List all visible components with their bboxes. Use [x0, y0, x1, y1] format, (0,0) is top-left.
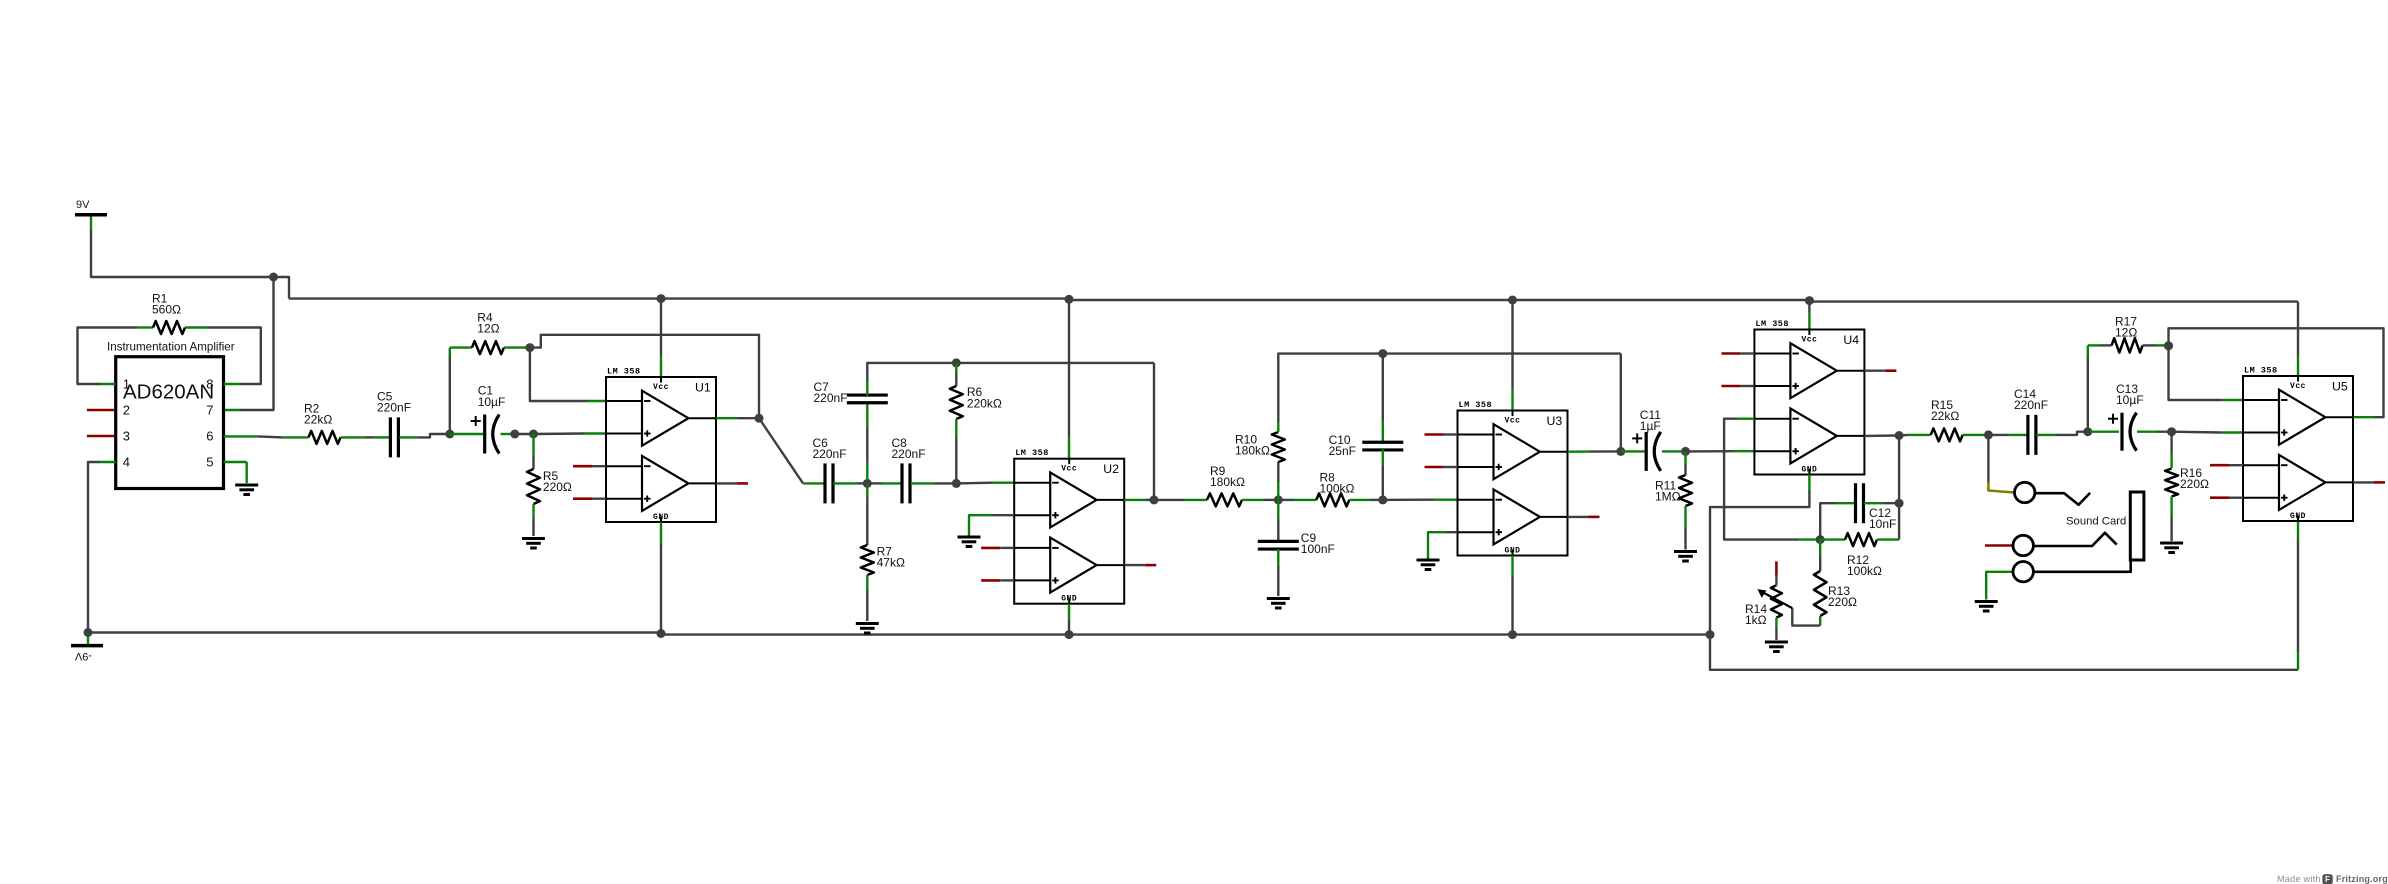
label R12	[1847, 553, 1882, 578]
wire R7 to ground	[866, 590, 868, 621]
svg-text:12Ω: 12Ω	[477, 322, 499, 336]
svg-text:U2: U2	[1103, 462, 1119, 476]
wire R16 bottom green lead	[2170, 497, 2172, 517]
wire R4 left green lead v	[449, 348, 451, 356]
wire U3 out to node G	[1590, 450, 1621, 453]
node C1 right b (R5 tap)	[529, 430, 538, 439]
svg-text:8: 8	[206, 376, 213, 391]
wire R2 right green lead	[341, 436, 366, 438]
svg-text:180kΩ: 180kΩ	[1235, 444, 1270, 458]
ground (R11)	[1674, 552, 1697, 562]
wire R16 top green lead	[2170, 452, 2172, 468]
stub U1 in2+ (unconnected)	[573, 497, 606, 500]
jack ring terminal circle	[2013, 535, 2033, 555]
svg-text:Vcc: Vcc	[1061, 465, 1077, 474]
wire rail to U2 Vcc	[1068, 299, 1070, 437]
wire U1 GND green lead	[660, 522, 662, 545]
op-amp U2 (LM358)	[1014, 448, 1124, 604]
resistor R16	[2165, 469, 2178, 497]
svg-text:LM 358: LM 358	[2244, 366, 2278, 376]
stub U2 in2+ (unconnected)	[981, 579, 1014, 582]
svg-text:1: 1	[123, 376, 130, 391]
wire R6 bottom green lead	[955, 419, 957, 437]
label R11	[1655, 479, 1681, 504]
wire U3 out1 green lead	[1568, 450, 1590, 453]
wire R17 right green lead	[2156, 344, 2169, 346]
wire U5 out1 feedback	[2169, 328, 2384, 417]
wire node I green lead	[1798, 538, 1820, 540]
wire R10 bottom green lead	[1277, 482, 1279, 500]
label R14	[1745, 602, 1767, 627]
wire node M to C13 green lead	[2090, 431, 2119, 433]
svg-text:Instrumentation Amplifier: Instrumentation Amplifier	[107, 341, 235, 354]
wire R14 bottom green lead	[1775, 618, 1777, 628]
IC U6 AD620AN instrumentation amplifier	[107, 341, 235, 489]
wire node M up to R17	[2087, 358, 2089, 432]
svg-text:100kΩ: 100kΩ	[1320, 482, 1355, 496]
stub U5 out2 (unconnected)	[2353, 481, 2385, 483]
wire R6 bottom lead2	[955, 437, 957, 483]
node R6 top	[952, 358, 961, 367]
label C12	[1869, 506, 1896, 531]
wire node O to U5 in1+	[2172, 431, 2221, 434]
stub U3 in1+ (unconnected)	[1425, 466, 1458, 469]
wire node C to C8	[867, 482, 882, 484]
wire node L down to jack	[1987, 435, 1989, 483]
wire node N to U5 in1-	[2169, 345, 2222, 400]
stub U5 in2+ (unconnected)	[2210, 496, 2243, 499]
wire U5 GND green lead	[2297, 521, 2299, 540]
wire R13 top green lead	[1819, 540, 1821, 556]
wire junction to top +9V rail	[274, 277, 290, 299]
wire R7 top lead	[866, 483, 868, 497]
svg-text:560Ω: 560Ω	[152, 303, 181, 317]
wire fb down to U3 out	[1620, 354, 1622, 452]
wire C13 right green lead	[2137, 431, 2158, 433]
label C5	[377, 390, 411, 415]
wire pin5 down	[245, 462, 247, 483]
wire R9 right green lead	[1242, 499, 1264, 501]
svg-text:180kΩ: 180kΩ	[1210, 475, 1245, 489]
label R15	[1931, 398, 1959, 423]
resistor R10	[1272, 432, 1285, 462]
resistor R13	[1814, 571, 1827, 616]
wire fb down to U2 out	[1153, 363, 1155, 500]
resistor R15	[1931, 428, 1963, 441]
wire R2 left green lead	[283, 436, 308, 438]
wire C7 bottom green lead2	[866, 462, 868, 481]
wire U4 in2- green lead	[1736, 418, 1754, 420]
wire R8 left green lead	[1293, 499, 1316, 501]
wire node J up to out2 row	[1898, 436, 1900, 504]
capacitor C13 (polarized)	[2108, 413, 2137, 451]
wire R10 bottom lead2	[1277, 462, 1279, 482]
svg-text:25nF: 25nF	[1329, 444, 1356, 458]
wire node H to U4	[1686, 450, 1733, 453]
ground (R16)	[2160, 543, 2183, 553]
label C13	[2116, 382, 2144, 407]
label R7	[877, 545, 905, 570]
svg-text:7: 7	[206, 402, 213, 417]
wire pin4 green lead	[98, 461, 116, 463]
node F (R8/C10/U3)	[1378, 495, 1387, 504]
svg-text:Fritzing.org: Fritzing.org	[2336, 874, 2388, 884]
svg-text:Vcc: Vcc	[2290, 382, 2306, 391]
node B (R4 right)	[525, 343, 534, 352]
node L (R15/C14/jack)	[1984, 430, 1993, 439]
wire U2 in1+ lead	[991, 514, 1014, 516]
wire rail to U3 Vcc	[1511, 300, 1513, 389]
wire C13 to node O	[2158, 431, 2172, 433]
capacitor C12	[1856, 483, 1864, 523]
svg-text:Vcc: Vcc	[653, 383, 669, 392]
node U2 GND rail	[1065, 630, 1074, 639]
wire R12 left green lead	[1820, 538, 1845, 540]
node C (C6/C7/R7/C8)	[863, 479, 872, 488]
svg-text:10µF: 10µF	[2116, 393, 2144, 407]
wire R1 left green lead	[137, 326, 153, 328]
node -9V rail start	[84, 628, 93, 637]
svg-text:220nF: 220nF	[814, 391, 848, 405]
capacitor C9	[1258, 541, 1299, 549]
wire rail corner down to bottom loop	[1710, 635, 2298, 670]
wire C14 to node M	[2056, 432, 2088, 435]
wire C10 top lead	[1382, 354, 1384, 420]
wire U2 out1 to junction	[1146, 499, 1154, 501]
wire pin1 to R1	[78, 328, 138, 385]
battery +9V terminal	[75, 199, 107, 231]
wire U2 in1+ to ground (green)	[969, 515, 992, 535]
wire R6 top lead	[955, 363, 957, 372]
wire R12 right green lead	[1877, 538, 1899, 540]
svg-text:2: 2	[123, 402, 130, 417]
label Sound Card	[2066, 516, 2126, 528]
svg-text:1kΩ: 1kΩ	[1745, 613, 1767, 627]
wire R16 to ground	[2170, 516, 2172, 541]
wire U3 in2+ to ground (green)	[1428, 532, 1447, 558]
wire R11 top lead2	[1684, 464, 1686, 475]
wire C7 bottom lead3	[866, 480, 868, 483]
label R4	[477, 311, 499, 336]
svg-text:6: 6	[206, 428, 213, 443]
wire pin1 green lead	[99, 383, 116, 385]
wire node L to C14	[1988, 434, 2008, 436]
capacitor C6	[825, 463, 833, 503]
svg-text:47kΩ: 47kΩ	[877, 556, 905, 570]
wire pin8 green lead	[224, 383, 241, 385]
wire 9V to junction	[91, 230, 274, 277]
wire pin6 green lead	[224, 435, 259, 437]
wire R8 to node F	[1371, 499, 1383, 501]
ground (R14)	[1765, 642, 1788, 652]
resistor R11	[1679, 475, 1692, 506]
wire node K to R15	[1899, 434, 1908, 437]
svg-text:220Ω: 220Ω	[2180, 477, 2209, 491]
wire R11 to ground	[1684, 527, 1686, 550]
svg-text:LM 358: LM 358	[607, 367, 641, 377]
svg-text:10nF: 10nF	[1869, 517, 1896, 531]
wire pin6 to R2	[258, 436, 283, 437]
wire R17 right lead dark	[2143, 344, 2156, 346]
wire C7 top to fb line	[867, 363, 956, 381]
wire R10 top to fb line 3	[1278, 354, 1383, 421]
footer Made with Fritzing.org	[2277, 874, 2388, 884]
wire C8 to node D	[933, 482, 956, 484]
ground (C9)	[1267, 599, 1290, 609]
capacitor C10	[1362, 442, 1403, 450]
wire C6 to node C	[857, 482, 867, 484]
wire R5 top lead2	[532, 455, 534, 469]
label R17	[2115, 315, 2137, 340]
battery -9V terminal	[71, 633, 103, 662]
wire U4 GND to left/down	[1710, 491, 1809, 635]
op-amp U1 (LM358)	[606, 367, 716, 523]
wire node B to U1 out (feedback)	[530, 335, 759, 418]
ground (R5)	[522, 539, 545, 549]
wire R5 to ground	[532, 517, 534, 536]
wire C8 right green lead	[910, 482, 933, 484]
wire bottom -9V rail	[88, 633, 1710, 635]
wire R15 right green lead	[1963, 434, 1985, 436]
stub U4 in1- (unconnected)	[1721, 352, 1754, 355]
wire C10 bottom lead2	[1382, 466, 1384, 500]
stub R14 top (unconnected)	[1775, 561, 1778, 585]
wire R9 left green lead	[1184, 499, 1207, 501]
wire U3 in2- green lead	[1435, 499, 1458, 501]
wire C12 right green lead	[1864, 502, 1883, 504]
op-amp U3 (LM358)	[1458, 400, 1568, 556]
resistor R4	[472, 341, 504, 354]
svg-text:1MΩ: 1MΩ	[1655, 490, 1681, 504]
node rail-U2Vcc	[1065, 295, 1074, 304]
capacitor C1 (polarized)	[471, 415, 500, 454]
svg-text:U1: U1	[695, 381, 711, 395]
wire jack tip lead (olive)	[1988, 482, 2014, 493]
ground (jack sleeve)	[1975, 602, 1998, 612]
svg-text:22kΩ: 22kΩ	[1931, 409, 1959, 423]
svg-text:220nF: 220nF	[813, 447, 847, 461]
stub U3 in1- (unconnected)	[1425, 433, 1458, 436]
label C1	[478, 384, 506, 409]
capacitor C11 (polarized)	[1632, 432, 1661, 471]
wire R17 left green lead v	[2087, 345, 2089, 358]
wire rail to U1 Vcc	[660, 299, 662, 355]
svg-text:220kΩ: 220kΩ	[967, 396, 1002, 410]
pin 2 stub (unconnected)	[87, 409, 114, 412]
wire U2 out to R9	[1154, 499, 1184, 501]
stub U4 out1 (unconnected)	[1864, 370, 1896, 372]
node rail-U3Vcc	[1508, 296, 1517, 305]
node C1 right a	[510, 430, 519, 439]
label C14	[2014, 387, 2048, 412]
wire C7 bottom lead2	[866, 428, 868, 463]
node H (C11/R11/U4)	[1681, 447, 1690, 456]
wire R14 to ground	[1775, 628, 1777, 640]
pin 3 stub (unconnected)	[87, 435, 114, 438]
wire U1 out1 to junction	[738, 417, 759, 419]
wire C6 left green lead	[803, 482, 825, 484]
wire U5 in1- green lead	[2221, 399, 2243, 401]
wire U1 in1- green lead	[588, 400, 606, 402]
wire pin4 down to -9V rail	[88, 462, 99, 633]
wire C10 bottom green lead	[1382, 449, 1384, 466]
resistor R17	[2112, 338, 2143, 352]
wire R12 right up to node J	[1898, 503, 1900, 539]
label C8	[892, 436, 926, 461]
label R6	[967, 385, 1002, 410]
wire R4 left green lead	[450, 346, 472, 348]
label C9	[1301, 531, 1335, 556]
label R5	[543, 469, 572, 494]
node D (C8/R6/U2)	[952, 479, 961, 488]
resistor R8	[1316, 493, 1349, 506]
wire U4 Vcc green lead	[1808, 312, 1810, 330]
jack tip terminal circle	[2015, 482, 2035, 502]
wire U3 in2+ lead	[1446, 531, 1458, 533]
stub U3 out2 (unconnected)	[1568, 516, 1600, 518]
wire U2 Vcc green lead	[1068, 437, 1070, 459]
op-amp U4 (LM358)	[1754, 319, 1864, 475]
svg-text:100kΩ: 100kΩ	[1847, 564, 1882, 578]
wire R9 to node E	[1264, 499, 1278, 501]
svg-text:220nF: 220nF	[377, 401, 411, 415]
wire fb line U3	[1383, 352, 1621, 354]
wire U2 GND to rail	[1068, 621, 1070, 635]
wire C9 to ground	[1277, 566, 1279, 596]
node U1 output	[755, 414, 764, 423]
node E (R9/R10/R8/C9)	[1274, 495, 1283, 504]
jack sleeve terminal circle	[2013, 562, 2033, 582]
wire U1 Vcc green lead	[660, 355, 662, 377]
stub U2 in2- (unconnected)	[981, 547, 1014, 550]
svg-text:U5: U5	[2332, 380, 2348, 394]
resistor R9	[1207, 493, 1242, 506]
node U3 GND rail	[1508, 630, 1517, 639]
wire to U1 non-inverting input	[534, 432, 585, 435]
node O (C13/R16/U5 in1+)	[2167, 427, 2176, 436]
wire R5 top lead	[532, 434, 534, 455]
wire U3 GND to rail	[1511, 577, 1513, 635]
ground (U3 in2+)	[1417, 560, 1440, 570]
wire U3 Vcc green lead	[1511, 389, 1513, 411]
wire junction to pin7 of U6	[240, 277, 274, 410]
jack ring stub (unconnected)	[1985, 544, 2013, 547]
node N (R17/fb/U5 in1-)	[2164, 341, 2173, 350]
label R2	[304, 402, 332, 427]
wire U4 in2- to node I	[1724, 419, 1798, 540]
svg-text:LM 358: LM 358	[1755, 319, 1789, 329]
wire C12 left green lead	[1836, 502, 1855, 504]
resistor R6	[950, 386, 963, 419]
svg-text:U3: U3	[1547, 414, 1563, 428]
node J (C12 right)	[1895, 499, 1904, 508]
svg-text:1µF: 1µF	[1640, 419, 1661, 433]
svg-text:220nF: 220nF	[892, 447, 926, 461]
wire U2 out1 green lead	[1124, 499, 1146, 501]
wire R7 top lead2	[866, 497, 868, 545]
stub U1 in2- (unconnected)	[573, 465, 606, 468]
label R16	[2180, 466, 2209, 491]
wire C11 left green lead	[1621, 450, 1645, 452]
wire C5 right green lead	[399, 436, 418, 438]
svg-text:LM 358: LM 358	[1015, 448, 1049, 458]
wire C7 bottom green lead	[866, 404, 868, 429]
stub U1 out2 (unconnected)	[716, 482, 748, 484]
wire U1 in1+ green lead	[584, 432, 606, 434]
ground (R7)	[856, 624, 879, 634]
label C10	[1329, 433, 1356, 458]
wire U5 out1 green lead	[2353, 416, 2375, 418]
op-amp U5 (LM358)	[2243, 366, 2353, 522]
wire C12 to node J	[1883, 502, 1899, 504]
wire U3 GND green lead	[1511, 556, 1513, 579]
wire U4 GND green lead	[1808, 475, 1810, 493]
wire R13 to R14 wiper	[1792, 608, 1820, 626]
wire node E to R8	[1278, 499, 1293, 501]
wire C8 left green lead	[882, 482, 902, 484]
node U1 GND rail	[657, 629, 666, 638]
svg-text:10µF: 10µF	[478, 395, 506, 409]
capacitor C14	[2028, 415, 2036, 455]
node I (R12/R13/C12)	[1816, 535, 1825, 544]
svg-text:LM 358: LM 358	[1459, 400, 1493, 410]
capacitor C7	[847, 395, 888, 403]
stub U2 out2 (unconnected)	[1124, 564, 1156, 566]
wire U5 GND up	[2297, 540, 2299, 651]
wire C14 right green lead	[2036, 434, 2056, 436]
node 9V/pin7/rail junction	[269, 273, 278, 282]
resistor R5	[527, 469, 540, 504]
svg-text:4: 4	[123, 454, 130, 469]
node U2 output	[1150, 495, 1159, 504]
wire U4 in2+ green lead	[1732, 450, 1754, 452]
wire R7 bottom green lead	[866, 575, 868, 590]
label R8	[1320, 470, 1355, 495]
wire C6 right green lead	[833, 482, 857, 484]
svg-text:220nF: 220nF	[2014, 398, 2048, 412]
svg-text:220Ω: 220Ω	[1828, 595, 1857, 609]
svg-text:220Ω: 220Ω	[543, 480, 572, 494]
wire C5 left green lead	[374, 436, 390, 438]
wire C9 bottom green lead	[1277, 549, 1279, 566]
wire rail to U5 Vcc	[2297, 302, 2299, 356]
wire U5 GND lead	[2297, 650, 2299, 670]
wire R8 right green lead	[1349, 499, 1371, 501]
wire R6 top lead2	[955, 372, 957, 386]
label C11	[1640, 408, 1661, 433]
wire R17 left lead dark	[2100, 344, 2112, 346]
wire C5 to node A	[418, 434, 450, 437]
wire node D to U2	[956, 482, 992, 485]
stub U5 in2- (unconnected)	[2210, 464, 2243, 467]
svg-text:5: 5	[206, 454, 213, 469]
node G (U3 out/C11)	[1616, 447, 1625, 456]
resistor R7	[861, 545, 874, 575]
wire top +9V rail	[289, 299, 2298, 302]
wire between C1 nodes	[515, 433, 534, 435]
wire U1 out1 green lead	[716, 417, 738, 419]
svg-text:3: 3	[123, 428, 130, 443]
wire C11 right green lead	[1662, 450, 1686, 452]
resistor R1	[153, 321, 185, 334]
node rail corner	[1706, 630, 1715, 639]
node M (C14/C13/R17)	[2083, 427, 2092, 436]
node C10 top	[1378, 349, 1387, 358]
wire U2 GND green lead	[1068, 604, 1070, 622]
wire U1 out diagonal to C6	[759, 418, 803, 483]
wire node I up to C12	[1820, 503, 1836, 539]
wire R2 to C5	[365, 436, 374, 438]
